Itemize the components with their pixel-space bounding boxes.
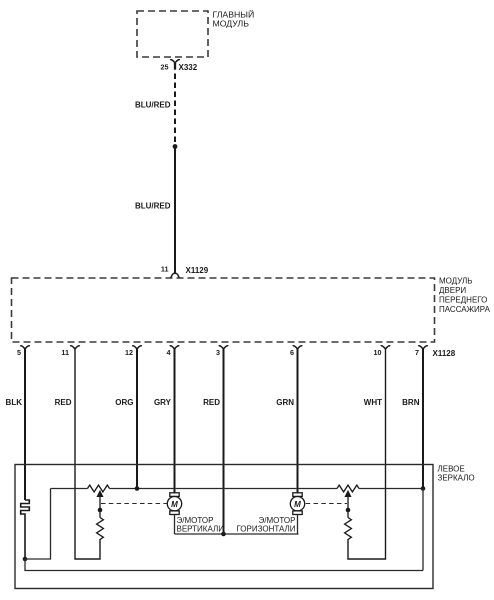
wire BLU/RED dashed from X332 <box>174 74 176 147</box>
svg-text:X1128: X1128 <box>433 349 456 358</box>
svg-text:3: 3 <box>216 348 220 357</box>
svg-text:ЗЕРКАЛО: ЗЕРКАЛО <box>438 474 475 483</box>
wire WHT pin10 to R4 bottom <box>348 348 386 560</box>
svg-text:M: M <box>294 500 301 509</box>
svg-text:7: 7 <box>415 348 419 357</box>
motor M2 brush bottom <box>293 511 302 515</box>
R1 wiper arrow <box>98 491 103 510</box>
main module box U1 (ГЛАВНЫЙ МОДУЛЬ) <box>137 11 208 57</box>
svg-text:ЛЕВОЕ: ЛЕВОЕ <box>438 465 465 474</box>
resistor R2 (vertical feedback) <box>97 518 104 540</box>
connector X332 stem <box>174 62 176 70</box>
resistor R1 (vertical position pot) <box>88 485 110 492</box>
svg-text:BLU/RED: BLU/RED <box>135 202 171 211</box>
wire BRN pin7 to rail <box>422 348 424 489</box>
pin 10 fork <box>381 346 390 349</box>
mechanical link M2 wiper (dashed) <box>306 503 347 505</box>
svg-text:4: 4 <box>167 348 171 357</box>
motor M2 body <box>290 497 304 511</box>
svg-text:11: 11 <box>161 265 169 274</box>
pin 5 fork <box>20 346 29 349</box>
svg-text:BLK: BLK <box>6 398 23 407</box>
wire RED pin11 to R2 bottom <box>75 348 100 560</box>
wire BLK pin5 to heater <box>24 348 26 501</box>
wire rail right segment <box>359 488 423 490</box>
svg-text:25: 25 <box>161 63 169 72</box>
pin 6 fork <box>293 346 302 349</box>
svg-text:RED: RED <box>55 398 72 407</box>
resistor R3 (horizontal position pot) <box>337 485 359 492</box>
R3 wiper arrow <box>346 491 351 510</box>
motor M1 brush bottom <box>170 511 179 515</box>
wire BRN junction down to return rail <box>422 489 424 571</box>
svg-text:BLU/RED: BLU/RED <box>135 101 171 110</box>
mechanical link M1 wiper (dashed) <box>101 503 167 505</box>
svg-text:5: 5 <box>17 348 21 357</box>
svg-text:RED: RED <box>203 398 220 407</box>
wire rail left segment <box>51 488 88 490</box>
motor M1 body <box>167 497 181 511</box>
motor M2 (horizontal) brush top <box>293 493 302 497</box>
svg-text:GRY: GRY <box>154 398 172 407</box>
node R3 wiper junction <box>346 508 351 513</box>
wire M2 bottom <box>297 515 299 535</box>
wire GRN pin6 to motor M2 <box>297 348 299 494</box>
pin 4 fork <box>170 346 179 349</box>
motor M1 (vertical) brush top <box>170 493 179 497</box>
wire wiper to R4 <box>347 510 349 518</box>
wire RED pin3 to motors common <box>223 348 225 535</box>
svg-text:ДВЕРИ: ДВЕРИ <box>439 286 466 295</box>
svg-text:10: 10 <box>374 348 382 357</box>
svg-text:6: 6 <box>290 348 294 357</box>
wire BLU/RED solid to X1129 <box>174 147 176 274</box>
svg-text:12: 12 <box>125 348 133 357</box>
wire BLK junction to rail left end <box>25 489 51 560</box>
svg-text:X1129: X1129 <box>186 266 209 275</box>
node BLK junction <box>23 557 28 562</box>
passenger door module box U2 (МОДУЛЬ ДВЕРИ ПЕРЕДНЕГО ПАССАЖИРА) <box>12 278 435 342</box>
svg-text:X332: X332 <box>179 63 198 72</box>
wire wiper to R2 <box>99 510 101 518</box>
left mirror box (ЛЕВОЕ ЗЕРКАЛО) <box>15 465 433 589</box>
connector X1129 cup <box>170 273 180 277</box>
svg-text:МОДУЛЬ: МОДУЛЬ <box>213 19 250 29</box>
wire ORG pin12 to rail <box>136 348 138 489</box>
pin 11 fork <box>70 346 79 349</box>
svg-text:M: M <box>171 500 178 509</box>
svg-text:ORG: ORG <box>115 398 133 407</box>
svg-text:GRN: GRN <box>276 398 294 407</box>
node BRN junction on rail <box>421 486 426 491</box>
svg-text:11: 11 <box>61 348 69 357</box>
node RED pin3 junction <box>221 532 226 537</box>
pin 12 fork <box>132 346 141 349</box>
svg-text:WHT: WHT <box>364 398 382 407</box>
node R1 wiper junction <box>98 508 103 513</box>
svg-text:ПАССАЖИРА: ПАССАЖИРА <box>439 305 491 314</box>
wire motors common return <box>175 533 299 535</box>
heater element E1 (mirror heater meander) <box>21 500 30 559</box>
wire bottom return rail <box>25 559 423 571</box>
pin 7 fork <box>418 346 427 349</box>
svg-text:ПЕРЕДНЕГО: ПЕРЕДНЕГО <box>439 296 487 305</box>
resistor R4 (horizontal feedback) <box>345 518 352 540</box>
svg-text:ВЕРТИКАЛИ: ВЕРТИКАЛИ <box>177 524 225 533</box>
svg-text:МОДУЛЬ: МОДУЛЬ <box>439 277 473 286</box>
splice node on BLU/RED wire <box>173 144 178 149</box>
wire GRY pin4 to motor M1 <box>174 348 176 494</box>
pin 3 fork <box>219 346 228 349</box>
wire M1 bottom <box>174 515 176 535</box>
svg-text:ГОРИЗОНТАЛИ: ГОРИЗОНТАЛИ <box>236 524 295 533</box>
wire rail middle segment <box>110 488 338 490</box>
node ORG junction on rail <box>135 486 140 491</box>
connector X332 fork <box>170 60 179 63</box>
svg-text:BRN: BRN <box>402 398 420 407</box>
